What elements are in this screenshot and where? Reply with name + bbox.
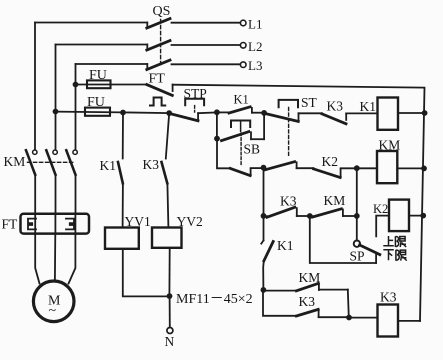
node tap row1 on phase L3 [73,82,79,88]
svg-text:K3: K3 [380,290,397,305]
svg-text:K1: K1 [234,93,249,107]
stop pushbutton STP [170,99,204,121]
node rowA right [354,213,360,219]
upper-limit contact wire to K2 coil [376,216,389,237]
node tap row2 on phase L2 [53,109,59,115]
svg-text:KM: KM [324,193,346,208]
fuse FU2 [85,108,110,116]
node N junction [167,293,173,299]
svg-text:K2: K2 [373,202,388,216]
svg-text:KM: KM [379,138,401,153]
disconnect switch QS pole 2 [147,41,170,50]
svg-text:KM: KM [4,154,26,169]
wire SB lower branch [217,139,230,169]
node bus K1 [422,110,428,116]
label upper limit (shang xian) [383,236,406,247]
FT heater element 1 [28,219,36,230]
node YV1 branch [120,110,126,116]
contact K3 NO vertical YV2 branch [162,113,170,227]
svg-text:FU: FU [89,68,107,83]
svg-text:ST: ST [301,95,318,110]
pushbutton SB NC contact [230,168,263,176]
disconnect switch QS pole 1 [147,19,170,28]
svg-text:K3: K3 [280,194,297,209]
wire K2 coil to bus [409,215,423,217]
wire row3 down to rowA right [356,168,358,216]
svg-text:MF11－45×2: MF11－45×2 [176,292,253,307]
relay coil K3 [378,305,399,337]
wire phase L1 horizontal to QS [35,22,147,24]
start pushbutton SB [222,113,265,166]
wire to KM coil [357,167,377,169]
svg-text:N: N [165,334,175,349]
FT heater element 2 [66,219,74,230]
node row3 right [354,165,360,171]
wire phase L3 horizontal to QS [76,63,148,65]
wire phase L2 horizontal to QS [56,44,148,46]
svg-text:L1: L1 [248,17,262,32]
KM linkage dashed [28,161,76,163]
contact K1 NO vertical on left bus [261,216,273,290]
contact K3 NO rowA [264,207,310,217]
contact K3 NO row6 [296,309,348,317]
contact K1 NO vertical YV1 branch [118,113,123,228]
wires through FT box [34,214,36,234]
wire top control bus to right corner and right bus down [173,85,425,321]
relay coil K2 [389,200,409,232]
solenoid valve YV2 [152,228,182,248]
node bus K2 [420,213,426,219]
lower-limit contact tick [375,255,377,264]
label lower limit (xia xian) [383,250,406,261]
fuse FU1 [87,80,111,88]
wire QS pole1 to L1 terminal [172,22,241,24]
wire motor leads below KM [34,175,36,214]
svg-text:KM: KM [299,270,321,285]
terminal L1 [240,20,246,26]
node K1/SB right [261,110,267,116]
node SB branch [214,136,220,142]
svg-text:STP: STP [184,86,207,101]
svg-text:SP: SP [350,249,365,264]
wire row2 left [56,112,170,114]
contactor KM main contact 3 [66,150,77,175]
svg-text:YV2: YV2 [177,214,203,229]
contactor KM main contact 1 [26,150,37,175]
svg-text:K1: K1 [100,158,117,173]
contact KM NO rowA [310,209,357,217]
svg-text:L2: L2 [248,39,262,54]
svg-text:FT: FT [2,217,19,232]
wire QS pole3 to L3 terminal [172,63,241,65]
wire lower-limit path [310,216,376,263]
node row6 right [346,315,352,321]
node row5 left [261,287,267,293]
solenoid valve YV1 [105,228,139,249]
wire to N terminal [169,296,171,327]
contact KM NO row5 [263,283,347,290]
svg-text:L3: L3 [248,58,262,73]
contact K2 NC [314,168,357,177]
wire YV1 bottom to N node [123,249,170,297]
wire phase L3 vertical [75,64,77,149]
wire left bus row3 to rowA [263,168,265,216]
terminal N [167,328,173,334]
contactor coil KM [377,151,397,183]
svg-text:QS: QS [153,4,171,19]
QS linkage dashed [160,20,162,66]
wire K1 coil to bus [398,112,425,114]
node row3 left [261,165,267,171]
wire KM coil to bus [397,167,424,169]
disconnect switch QS pole 3 [147,60,170,69]
svg-text:FT: FT [149,72,166,87]
wire K3 coil to bus [398,320,420,322]
wire left bus row5 to row6 [263,290,297,316]
svg-text:K2: K2 [322,154,339,169]
terminal L3 [240,62,246,68]
wire rowA right down to SP pivot [356,216,358,240]
terminal L2 [240,43,246,49]
svg-text:K3: K3 [143,157,160,172]
node rowA mid [307,213,313,219]
motor M [33,281,74,322]
wire STP to node [198,111,217,114]
svg-text:SB: SB [244,142,261,157]
wire row1 to fuse [76,84,148,86]
thermal relay FT heater box [21,214,90,234]
svg-text:K1: K1 [360,99,377,114]
wire QS pole2 to L2 terminal [172,44,241,46]
wire YV2 bottom to N node [168,248,170,296]
svg-text:K3: K3 [299,294,316,309]
wire SB branch down [216,112,218,138]
svg-text:K3: K3 [327,99,344,114]
node YV2 branch [166,110,172,116]
wire phase L2 vertical [55,45,57,150]
wire phase L1 vertical [34,23,36,150]
ST actuator [279,100,298,158]
contact K3 NC row2 [322,113,377,123]
relay coil K1 [378,98,399,130]
node rowA left [261,213,267,219]
contact K1 self-holding [217,107,264,113]
svg-text:K1: K1 [277,238,294,253]
svg-text:~: ~ [49,304,57,319]
wire to K3 coil [349,317,378,319]
pushbutton ST NC contact [265,113,323,121]
wire row5 corner down [348,290,349,318]
wires FT box to motor [35,234,39,284]
thermal overload contact FT [147,85,173,106]
svg-text:YV1: YV1 [125,214,151,229]
svg-text:FU: FU [87,95,105,110]
node bus KM [421,166,427,172]
node K1 holding branch left [214,109,220,115]
limit selector switch SP [354,241,380,255]
pushbutton ST NO contact [265,162,314,170]
contactor KM main contact 2 [46,150,57,175]
